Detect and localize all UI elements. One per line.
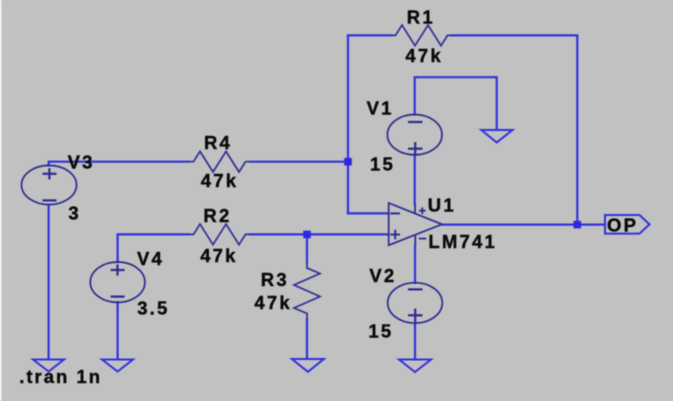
- svg-text:15: 15: [368, 321, 393, 342]
- svg-text:3.5: 3.5: [137, 297, 169, 318]
- svg-text:V4: V4: [137, 248, 164, 269]
- svg-text:V2: V2: [369, 265, 396, 286]
- svg-text:47k: 47k: [200, 245, 237, 266]
- svg-text:OP: OP: [607, 214, 638, 235]
- svg-text:V1: V1: [367, 98, 394, 119]
- svg-text:15: 15: [370, 153, 395, 174]
- svg-text:.tran 1n: .tran 1n: [19, 366, 102, 387]
- svg-text:47k: 47k: [405, 45, 442, 66]
- svg-text:3: 3: [68, 202, 81, 223]
- svg-text:R4: R4: [204, 132, 232, 153]
- svg-text:47k: 47k: [254, 292, 291, 313]
- svg-text:LM741: LM741: [428, 231, 497, 252]
- svg-text:V3: V3: [68, 152, 95, 173]
- svg-text:47k: 47k: [201, 170, 238, 191]
- svg-text:U1: U1: [428, 194, 456, 215]
- svg-text:R3: R3: [261, 269, 289, 290]
- svg-text:R2: R2: [203, 205, 231, 226]
- svg-text:R1: R1: [407, 6, 435, 27]
